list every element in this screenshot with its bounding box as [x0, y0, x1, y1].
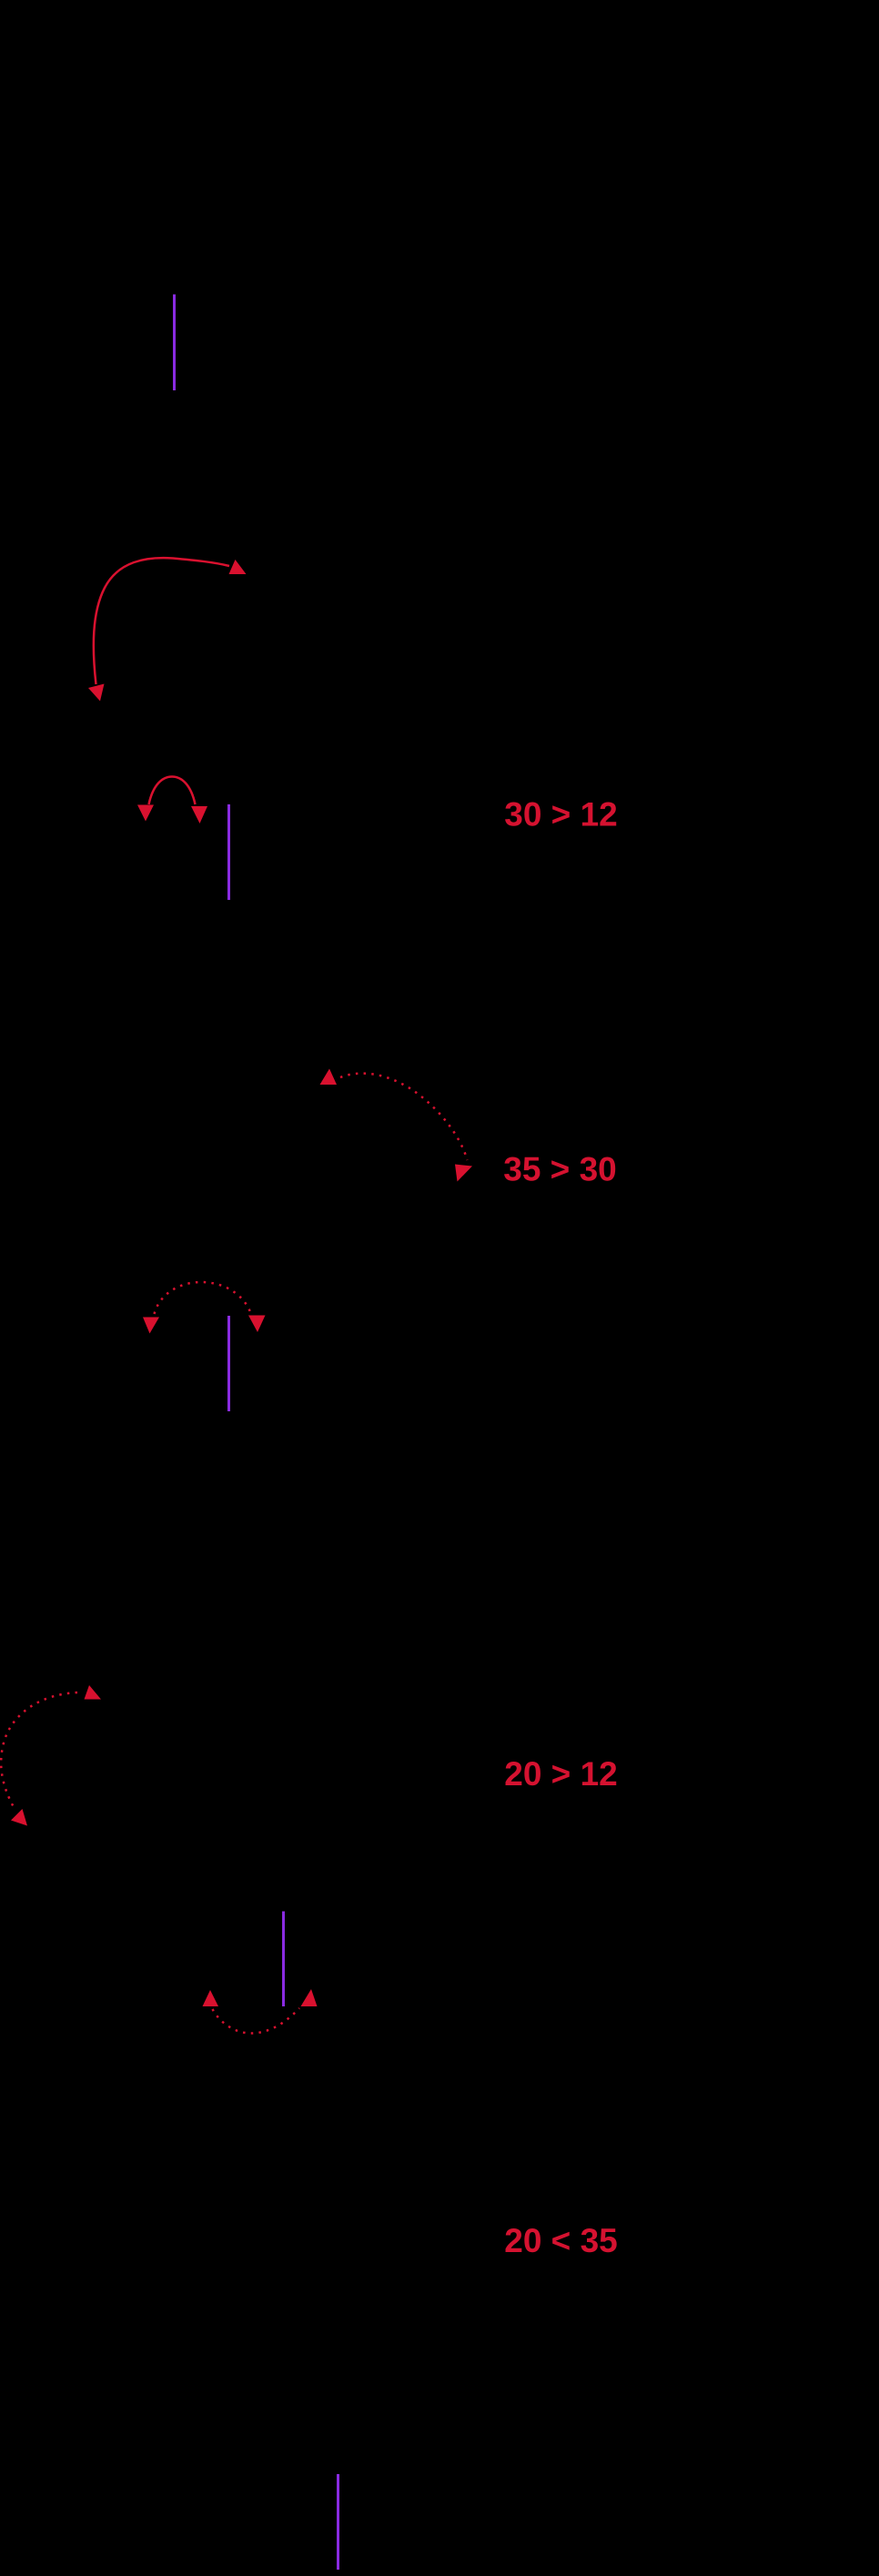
insertion marker line 2	[227, 804, 230, 900]
swap arc up arrowhead	[229, 560, 247, 574]
C arc down-left arrowhead	[11, 1809, 27, 1826]
small arc left arrowhead	[137, 805, 154, 822]
dotted U arc	[213, 2008, 300, 2034]
insertion marker line 4	[282, 1912, 285, 2007]
insertion marker line 1	[173, 295, 176, 391]
svg-text:20 < 35: 20 < 35	[504, 2222, 617, 2259]
swap arc (solid) 30/12	[94, 558, 229, 684]
C arc up arrowhead	[85, 1685, 102, 1700]
small arc right arrowhead	[191, 806, 207, 823]
U arc right arrowhead	[301, 1989, 318, 2006]
small solid swap arc	[149, 777, 196, 805]
insertion marker line 5	[337, 2474, 339, 2570]
dotted hump right arrowhead	[248, 1316, 266, 1333]
dotted arc up arrowhead	[320, 1069, 338, 1086]
dotted arc down arrowhead	[455, 1165, 472, 1182]
dotted arc 35/30	[340, 1074, 468, 1160]
svg-text:35 > 30: 35 > 30	[503, 1151, 616, 1188]
insertion marker line 3	[227, 1316, 230, 1411]
U arc left arrowhead	[203, 1990, 219, 2006]
svg-text:30 > 12: 30 > 12	[504, 796, 617, 833]
dotted hump left arrowhead	[143, 1318, 159, 1334]
svg-text:20 > 12: 20 > 12	[504, 1755, 617, 1793]
swap arc down arrowhead	[88, 684, 105, 702]
dotted hump arc	[155, 1282, 251, 1314]
big dotted C arc 20/12	[1, 1692, 77, 1807]
